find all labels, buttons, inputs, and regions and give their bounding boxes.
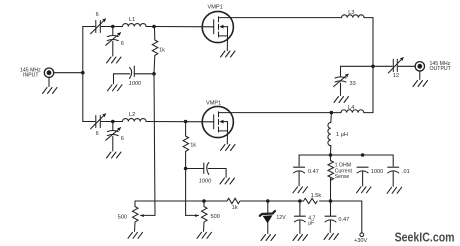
node bias 1 junction [152,72,156,76]
resistor 1k (horizontal, bias feed) [227,198,240,203]
ground (right pot) [197,232,212,238]
ground (1000 bypass) [357,187,372,193]
wire bottom supply rail (right) [320,200,362,202]
svg-text:.01: .01 [402,169,410,175]
node top branch A [111,25,115,29]
wire supply rail to +30V terminal [361,201,363,233]
capacitor .01 [388,167,399,186]
svg-text:12V: 12V [276,215,286,221]
svg-text:0.47: 0.47 [308,169,319,175]
node 4.7uF junction [298,199,302,203]
svg-text:6: 6 [121,41,124,47]
capacitor 1000 (supply bypass) [357,167,368,186]
ground (0.47 right) [324,234,339,240]
svg-text:VMP1: VMP1 [206,101,221,107]
ground (.01) [387,187,402,193]
ground (shunt trimmer bottom) [107,152,122,158]
input connector J1 145 MHz INPUT [44,68,53,87]
ground (left pot) [128,232,143,238]
trimmer capacitor 33 (shunt) [334,74,349,96]
node L4 / RFC junction [330,111,334,115]
wire L2 to gate of Q2 [146,121,214,123]
svg-text:1000: 1000 [129,81,142,87]
inductor L3 [342,15,364,18]
svg-text:1000: 1000 [371,169,383,175]
wire trimmer to node C [101,121,113,123]
wire output junction to trimmer 12 [373,65,392,67]
transistor Q1 VMP1 [202,11,233,50]
svg-text:μF: μF [308,220,314,226]
wire right bus vertical [372,18,374,113]
wire bottom supply rail (middle) [240,200,304,202]
wire output junction left to trimmer 33 [341,66,374,76]
potentiometer 500 (right) [202,199,208,231]
svg-text:Sense: Sense [335,174,350,180]
svg-text:L1: L1 [129,17,135,23]
node D gate 2 junction [184,120,188,124]
wire L3 to right bus corner [364,17,373,19]
ground (input connector) [43,88,58,94]
svg-text:INPUT: INPUT [23,73,39,79]
wire drain rail 2 [230,112,341,114]
zener diode 12V [260,201,275,234]
transistor Q2 VMP1 [202,106,233,144]
node input bus junction [81,71,85,75]
svg-text:1k: 1k [232,205,238,211]
svg-text:L2: L2 [129,112,135,118]
potentiometer 500 (left) [133,201,139,231]
ground (4.7uF) [293,235,308,241]
ground (Q2 source) [221,145,236,151]
output label 145 MHz OUTPUT [430,61,452,72]
ground (shunt trimmer top) [107,57,122,63]
svg-text:500: 500 [211,214,220,220]
label 1 OHM Current Sense [335,163,353,181]
inductor L1 [123,24,147,27]
node zener junction [266,199,270,203]
wire input to bus [54,72,83,74]
capacitor 0.47 (right, supply) [325,201,336,233]
input label 145 MHz INPUT [20,68,41,79]
inductor L2 [123,119,147,122]
terminal +30V [360,233,364,237]
svg-text:L4: L4 [348,105,354,111]
svg-text:12: 12 [393,73,399,79]
svg-text:0.47: 0.47 [338,217,349,223]
capacitor 4.7uF [294,201,305,234]
label 4.7 uF [308,215,315,226]
wire bottom branch to trimmer [83,121,95,123]
node RFC to rail junction [329,153,333,157]
svg-text:1k: 1k [190,143,196,149]
wire L1 to node B [146,26,154,28]
ground (bias bypass 1) [108,85,123,91]
wire trimmer 12 to output connector [398,65,415,67]
svg-text:1.5k: 1.5k [311,193,322,199]
svg-text:500: 500 [118,214,127,220]
capacitor 1000 (bias bypass 1) [114,66,155,84]
svg-text:6: 6 [121,136,124,142]
wire node B to gate of Q1 [154,26,214,28]
resistor 1.5k (horizontal) [304,198,318,203]
node 1000 bypass junction [361,153,365,157]
resistor 1k (gate bias Q2, vertical) [183,122,189,169]
capacitor 0.47 (left, decoupling) [294,167,305,186]
wire bias 1 vertical down to pot wiper [141,74,156,217]
node B gate 1 junction [152,25,156,29]
wire bias 2 vertical down to pot wiper [186,169,199,218]
svg-text:VMP1: VMP1 [208,5,223,11]
wire bottom supply rail [135,200,227,202]
svg-text:33: 33 [350,81,356,87]
ground (output connector) [413,81,428,87]
ground (bias bypass 2) [220,178,235,184]
node bias 2 junction [184,167,188,171]
svg-text:OUTPUT: OUTPUT [430,66,452,72]
ground (trimmer 33) [334,97,349,103]
output connector J2 145 MHz OUTPUT [415,62,424,80]
trimmer capacitor 6 (series, top) [91,19,106,34]
node output junction [371,65,375,69]
trimmer capacitor 6 (shunt, top) [106,27,121,57]
wire top branch to trimmer [83,26,95,28]
trimmer capacitor 6 (shunt, bottom) [106,122,121,152]
svg-text:1 μH: 1 μH [336,132,348,138]
svg-text:6: 6 [96,12,99,18]
wire node C to L2 [113,121,123,123]
svg-text:L3: L3 [348,10,354,16]
wire decoupling rail [299,155,393,166]
svg-text:1000: 1000 [199,178,212,184]
ground (zener) [261,235,276,241]
node C bottom branch [111,120,115,124]
node 0.47 / sense junction [329,199,333,203]
inductor RFC 1uH (vertical) [328,113,332,155]
wire drain rail 1 [230,17,341,19]
wire left bus vertical [82,27,84,122]
trimmer capacitor 6 (series, bottom) [91,114,106,129]
resistor 1 OHM current sense [328,155,334,201]
wire L4 to right bus [364,112,373,114]
capacitor 1000 (bias bypass 2) [186,163,227,178]
svg-text:1k: 1k [159,48,165,54]
ground (Q1 source) [221,51,236,57]
svg-text:6: 6 [96,131,99,137]
svg-text:+30V: +30V [354,238,367,244]
wire node to L1 [113,26,123,28]
inductor L4 [341,110,364,113]
resistor 1k (gate bias Q1, vertical at node B) [152,28,158,74]
ground (0.47 left) [293,187,308,193]
wire trimmer to node [101,26,113,28]
svg-text:SeekIC.com: SeekIC.com [395,230,455,244]
trimmer capacitor 12 (series, output) [388,58,403,74]
